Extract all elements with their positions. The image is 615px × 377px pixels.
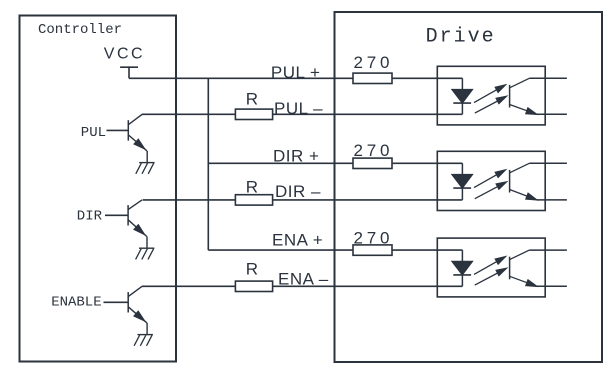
node label PUL+ — [271, 63, 321, 82]
wire ENABLE base — [104, 301, 129, 303]
svg-text:270: 270 — [354, 53, 394, 72]
svg-text:R: R — [246, 177, 258, 196]
resistor 270 (row DIR+) value label — [354, 141, 394, 160]
node label DIR- — [275, 182, 321, 201]
svg-text:Drive: Drive — [426, 26, 496, 49]
svg-text:ENABLE: ENABLE — [51, 294, 101, 310]
optocoupler U2 LED anode lead — [461, 163, 463, 174]
resistor 270 (row DIR+) body — [353, 158, 392, 168]
optocoupler U2 phototransistor collector — [510, 163, 567, 173]
ground Q3 — [134, 335, 153, 346]
resistor 270 (row PUL+) body — [353, 73, 392, 83]
resistor R (row DIR-) label R — [246, 177, 258, 196]
ground Q2 — [136, 248, 155, 259]
controller box — [20, 16, 177, 362]
optocoupler U1 LED triangle — [452, 90, 473, 104]
resistor R (row DIR-) body — [235, 195, 272, 205]
PUL label — [81, 125, 106, 141]
optocoupler U1 (PUL) box — [437, 66, 545, 125]
node label DIR+ — [273, 147, 319, 166]
svg-text:DIR +: DIR + — [273, 147, 319, 166]
VCC power symbol — [120, 66, 138, 78]
optocoupler U1 phototransistor bar — [509, 85, 511, 108]
optocoupler U3 phototransistor emitter — [510, 276, 567, 286]
optocoupler U1 light arrow 2 — [475, 96, 507, 113]
resistor R (row ENA-) label R — [246, 259, 258, 278]
optocoupler U2 (DIR) box — [437, 151, 545, 210]
DIR label — [77, 209, 103, 225]
optocoupler U1 phototransistor emitter — [510, 105, 567, 115]
optocoupler U3 light arrow 2 — [475, 268, 507, 285]
svg-text:PUL: PUL — [81, 125, 106, 141]
optocoupler U1 light arrow 1 — [474, 85, 505, 103]
svg-text:DIR: DIR — [77, 209, 103, 225]
drive box — [335, 12, 603, 362]
optocoupler U1 LED cathode bar — [453, 102, 471, 104]
optocoupler U3 LED anode lead — [461, 250, 463, 261]
VCC label — [104, 46, 145, 63]
transistor Q1 emitter — [128, 135, 147, 163]
optocoupler U3 LED cathode bar — [453, 274, 471, 276]
ground Q1 — [136, 163, 155, 174]
resistor 270 (row ENA+) value label — [354, 229, 394, 248]
resistor R (row PUL-) body — [235, 109, 272, 119]
optocoupler U2 LED cathode bar — [453, 187, 471, 189]
transistor Q1 collector — [128, 114, 142, 124]
svg-text:270: 270 — [354, 141, 394, 160]
resistor 270 (row ENA+) body — [353, 245, 392, 255]
wire ENA- row — [142, 285, 462, 287]
wire ENA+ row — [208, 249, 462, 251]
optocoupler U3 (ENA) box — [437, 238, 545, 297]
wire PUL+ row — [129, 77, 462, 79]
optocoupler U1 LED cathode lead — [461, 103, 463, 114]
node label PUL- — [274, 99, 323, 118]
controller label — [38, 22, 122, 38]
svg-text:R: R — [246, 259, 258, 278]
transistor Q2 collector — [128, 200, 142, 210]
svg-text:Controller: Controller — [38, 22, 122, 38]
transistor Q3 emitter — [128, 307, 147, 335]
optocoupler U3 LED cathode lead — [461, 275, 463, 286]
wire DIR- row — [143, 199, 463, 201]
transistor Q3 base bar — [127, 292, 129, 312]
optocoupler U3 phototransistor bar — [509, 257, 511, 280]
optocoupler U2 phototransistor emitter — [510, 190, 567, 200]
transistor Q1 base bar — [127, 120, 129, 140]
wire PUL- row — [142, 113, 463, 115]
optocoupler U1 phototransistor collector — [510, 78, 567, 88]
optocoupler U2 phototransistor bar — [509, 170, 511, 193]
resistor R (row PUL-) label R — [246, 90, 258, 109]
wire DIR+ row — [208, 162, 462, 164]
svg-text:ENA +: ENA + — [272, 230, 323, 249]
svg-text:DIR –: DIR – — [275, 182, 321, 201]
transistor Q3 collector — [128, 286, 142, 296]
optocoupler U2 light arrow 1 — [474, 170, 505, 188]
svg-text:ENA –: ENA – — [278, 269, 329, 288]
optocoupler U3 light arrow 1 — [474, 257, 505, 275]
optocoupler U1 LED anode lead — [461, 78, 463, 89]
drive label — [426, 26, 496, 49]
optocoupler U2 light arrow 2 — [475, 182, 507, 199]
svg-text:PUL +: PUL + — [271, 63, 321, 82]
resistor 270 (row PUL+) value label — [354, 53, 394, 72]
optocoupler U3 LED triangle — [452, 261, 473, 275]
svg-text:PUL –: PUL – — [274, 99, 323, 118]
wire PUL base — [107, 129, 129, 131]
optocoupler U2 LED cathode lead — [461, 188, 463, 200]
transistor Q2 base bar — [127, 205, 129, 225]
ENABLE label — [51, 294, 101, 310]
node label ENA+ — [272, 230, 323, 249]
svg-text:VCC: VCC — [104, 46, 145, 63]
optocoupler U3 phototransistor collector — [510, 250, 567, 260]
node label ENA- — [278, 269, 329, 288]
svg-text:R: R — [246, 90, 258, 109]
transistor Q2 emitter — [128, 220, 147, 248]
VCC bus wire — [207, 78, 209, 251]
wire DIR base — [105, 214, 128, 216]
resistor R (row ENA-) body — [235, 281, 272, 291]
optocoupler U2 LED triangle — [452, 175, 473, 189]
